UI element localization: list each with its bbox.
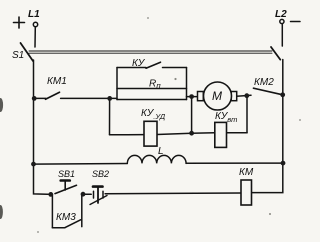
svg-text:SB2: SB2 — [92, 169, 109, 179]
svg-text:КМ2: КМ2 — [254, 77, 274, 88]
svg-text:М: М — [212, 89, 222, 103]
svg-text:SB1: SB1 — [58, 169, 75, 179]
svg-text:КУ: КУ — [132, 58, 146, 69]
svg-text:КМ: КМ — [239, 167, 254, 178]
svg-text:L1: L1 — [28, 9, 40, 20]
svg-text:L2: L2 — [275, 9, 287, 20]
svg-text:КМ3: КМ3 — [56, 212, 76, 223]
svg-text:КМ1: КМ1 — [47, 76, 67, 87]
svg-text:L: L — [158, 146, 164, 157]
svg-text:S1: S1 — [12, 50, 24, 61]
